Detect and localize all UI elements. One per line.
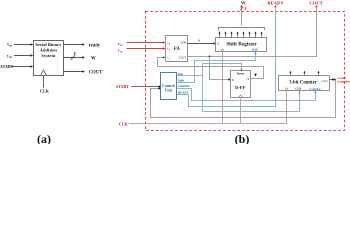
svg-text:Shift Register: Shift Register bbox=[226, 41, 257, 47]
clock triangle of shift register bbox=[221, 49, 225, 52]
bus bracket over shift register bbox=[219, 28, 265, 31]
input x_in label bbox=[7, 42, 12, 48]
wire READY trunk bbox=[274, 5, 277, 8]
svg-text:in: in bbox=[169, 43, 171, 45]
input y_in label bbox=[7, 53, 12, 59]
svg-text:in: in bbox=[169, 49, 171, 51]
output ready wire bbox=[64, 44, 83, 46]
output COUT wire bbox=[64, 71, 83, 73]
clock triangle of counter bbox=[285, 88, 289, 91]
svg-text:START: START bbox=[116, 84, 129, 89]
control unit output labels bbox=[178, 72, 190, 94]
wire carry return to control unit bbox=[151, 80, 336, 118]
svg-text:CLR: CLR bbox=[295, 87, 302, 91]
svg-text:Control: Control bbox=[162, 84, 175, 88]
svg-text:ready: ready bbox=[89, 44, 101, 49]
3-bit counter bbox=[279, 76, 330, 91]
wire START bbox=[11, 66, 31, 68]
wire CountEn bbox=[177, 89, 316, 101]
svg-text:CountEn: CountEn bbox=[178, 84, 190, 88]
wire SUM s bbox=[188, 43, 216, 45]
svg-text:System: System bbox=[41, 53, 55, 58]
svg-text:Serial Binary: Serial Binary bbox=[35, 42, 62, 47]
svg-text:Carry: Carry bbox=[321, 79, 328, 83]
wire COUT tap to D input bbox=[210, 57, 231, 80]
wire COUT run bbox=[315, 5, 318, 8]
wire W bus bbox=[241, 7, 243, 26]
svg-text:3-bit Counter: 3-bit Counter bbox=[289, 81, 318, 86]
node Count Complete bbox=[337, 76, 350, 84]
wire CLK riser to D-FF bbox=[240, 98, 242, 124]
svg-text:FA: FA bbox=[174, 46, 181, 52]
junction on COUT run bbox=[209, 56, 211, 58]
svg-text:D-FF: D-FF bbox=[235, 85, 246, 90]
svg-text:CLK: CLK bbox=[40, 89, 50, 94]
svg-text:si: si bbox=[217, 42, 219, 46]
svg-text:(a): (a) bbox=[37, 132, 51, 144]
svg-text:COUT: COUT bbox=[179, 57, 186, 60]
wire Init to D-FF reset bbox=[177, 64, 242, 76]
wire Q feedback to c_in bbox=[158, 58, 264, 79]
wire x_in (b) bbox=[127, 42, 164, 44]
wire x_in bbox=[14, 44, 31, 46]
wire y_in (b) bbox=[127, 48, 164, 50]
output W wire with 8-bit slash bbox=[64, 57, 83, 59]
control unit bbox=[161, 73, 177, 100]
wire Carry output bbox=[330, 79, 335, 81]
svg-text:8: 8 bbox=[74, 51, 76, 56]
wire CLK rail bbox=[129, 123, 287, 125]
svg-text:Complete: Complete bbox=[337, 80, 350, 84]
svg-text:COUT: COUT bbox=[309, 0, 322, 5]
svg-text:COUT: COUT bbox=[89, 70, 103, 75]
clock triangle of (a) block bbox=[41, 70, 47, 76]
input x_in (b) bbox=[118, 42, 123, 47]
feedback arrow marker bbox=[254, 74, 257, 77]
svg-text:Shift: Shift bbox=[252, 47, 259, 51]
CLK wire of (a) bbox=[43, 76, 45, 88]
wire CLK riser to counter bbox=[286, 91, 288, 124]
block Serial Binary Addition System bbox=[34, 41, 64, 76]
wire Shift bbox=[177, 53, 256, 82]
wire CLK riser to shift register bbox=[222, 52, 224, 124]
clock triangle of D-FF bbox=[239, 95, 243, 98]
full adder FA bbox=[166, 36, 188, 62]
svg-text:in: in bbox=[169, 58, 171, 60]
dashed red border bbox=[146, 12, 345, 131]
svg-text:CountEn: CountEn bbox=[309, 87, 321, 91]
wire Init branch to counter CLR bbox=[203, 76, 300, 112]
svg-text:Unit: Unit bbox=[165, 88, 173, 92]
svg-text:W: W bbox=[91, 57, 96, 62]
wire y_in bbox=[14, 55, 31, 57]
svg-text:READY: READY bbox=[178, 90, 190, 94]
svg-text:Reset: Reset bbox=[237, 72, 245, 76]
input y_in (b) bbox=[118, 48, 123, 53]
wire START (b) bbox=[131, 86, 146, 88]
svg-text:READY: READY bbox=[267, 0, 284, 5]
svg-text:CLK: CLK bbox=[119, 122, 129, 127]
svg-text:SUM: SUM bbox=[180, 42, 186, 45]
shift register bbox=[216, 38, 267, 52]
shift register output stems (8) bbox=[220, 33, 262, 38]
counter output stubs bbox=[291, 72, 319, 76]
svg-text:(b): (b) bbox=[235, 132, 250, 144]
D flip-flop bbox=[231, 71, 251, 98]
svg-text:Addition: Addition bbox=[40, 48, 58, 53]
svg-text:8: 8 bbox=[245, 7, 247, 11]
